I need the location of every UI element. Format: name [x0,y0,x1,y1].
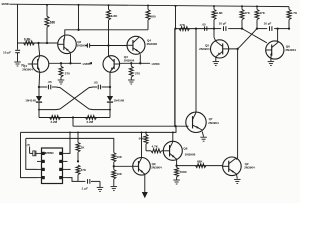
wire to Q9 base [114,165,133,167]
node rail dot x108 [108,4,110,6]
wire left drop x25.8 [26,138,37,169]
wire Q1 collector riser [39,43,40,56]
wire Q10 collector join [236,158,238,159]
svg-text:2N3906: 2N3906 [147,42,158,46]
wire Q6 collector [277,29,279,42]
resistor 6.8K stage1 [24,41,35,45]
wire junction down to line A [72,118,74,127]
transistor Q9 2N3904 [133,158,151,176]
wire Q10 emitter [235,174,238,179]
ground Q7 [200,136,207,138]
node dot 141.5,132.4 [141,131,143,133]
node dot 176.6,165.6 [175,164,177,166]
node rail dot x175.5 [175,5,177,7]
node dot 61,63.3 [60,62,62,64]
svg-text:.05: .05 [94,81,99,85]
transistor Q7 2N3904 [186,112,206,132]
wire rail tap x78.5 [78,5,80,30]
capacitor C8 .1uF [78,180,85,182]
node dot 70.5,63.3 [69,62,71,64]
transistor Q10 2N3904 [223,157,242,176]
svg-text:(7): (7) [27,143,30,147]
node dot 110,109.6 [109,109,111,111]
svg-text:+: + [19,48,21,52]
node dot 78.5,29.8 [77,29,79,31]
svg-text:270: 270 [135,71,140,75]
wire line B [21,127,177,133]
capacitor C3 .05 left cross [39,86,47,88]
transistor Q6 2N3904 [266,41,284,59]
transistor Q8 2N3906 [163,141,182,160]
node dot 146,132.4 [145,131,147,133]
svg-text:○2VDC: ○2VDC [82,62,92,66]
wire cross diag to Q6 base [242,29,267,43]
resistor 2.2M right [86,116,97,120]
marker near Q3 base [88,62,92,65]
ground divider [111,186,118,188]
ground below 270 stage1 [58,79,65,81]
node rail dot x257 [256,5,258,7]
wire Q8 emitter riser [172,132,174,141]
svg-text:1K: 1K [81,146,86,150]
capacitor C6 10uF [214,28,221,30]
wire cross diagonal B [39,87,93,110]
wire Q6 emitter [270,58,272,61]
resistor 680 stage1 vertical [46,27,48,43]
node dot 39,109.6 [38,109,40,111]
svg-text:2.2M: 2.2M [51,120,58,124]
wire top +12V rail [10,4,290,6]
node dot 78,132.4 [77,131,79,133]
node dot 173,132.4 [172,131,174,133]
resistor 270 stage2 [130,63,132,66]
svg-text:47K: 47K [180,23,186,27]
wire rail drop x175.5 [175,6,177,29]
svg-text:6.8K: 6.8K [111,14,118,18]
wire Q3 collector riser [108,46,110,56]
svg-text:68K: 68K [197,159,203,163]
wire Q7 collector drop [195,29,197,113]
resistor 47K mv-left [241,6,243,9]
node dot 78,161.4 [77,160,79,162]
svg-text:2N3904: 2N3904 [244,166,255,170]
svg-text:10 µF: 10 µF [3,50,11,54]
svg-text:2.2M: 2.2M [87,120,94,124]
svg-text:500K: 500K [180,170,188,174]
wire stage2 output line [120,62,150,64]
svg-text:2N3904: 2N3904 [285,48,296,52]
capacitor C5 .05 [204,26,206,30]
svg-text:1N4148: 1N4148 [114,98,125,102]
wire timing bottom line [39,117,110,119]
resistor 68K [196,164,207,168]
wire Q3 emitter down [109,72,111,87]
ground below C1 [14,61,21,63]
node dot 237.6,48.9 [236,48,238,50]
wire stage1 emitter-output line [49,62,81,64]
node rail dot x47 [46,4,48,6]
wire Q2 collector corner [65,30,148,36]
node rail dot x78.5 [78,4,80,6]
node dot 39,87 [38,86,40,88]
resistor 4.7K [146,150,151,152]
resistor 10K lower [113,166,115,169]
wire stage2 base line [90,45,128,47]
wire 47K line y28.6 [176,28,215,30]
node dot 131.3 [130,62,132,64]
resistor 680 stage2 vertical [147,5,149,9]
wire Q8 collector down [176,159,178,166]
svg-text:10 µF: 10 µF [219,21,227,25]
svg-text:12VDC: 12VDC [1,2,9,6]
resistor 6.8K stage2 vertical [108,5,110,10]
wire Q5 collector [213,29,215,38]
wire Q2 emitter [70,54,72,64]
ground Q10 [234,178,241,180]
wire left drop x20.5 [21,132,38,177]
resistor 50K [145,132,147,134]
svg-text:270: 270 [65,71,70,75]
capacitor C1 10uF [15,49,20,51]
wire Q9 collector riser [141,132,143,157]
resistor 1K [77,132,79,142]
resistor 4.7K far right [288,7,290,10]
node rail dot x148 [147,5,149,7]
svg-text:4.7K: 4.7K [152,145,159,149]
wire Q1 emitter down [38,72,41,87]
diode D1 1N4148 [38,87,40,96]
resistor 10K upper [112,153,116,162]
svg-text:10K: 10K [116,172,122,176]
node junction 47,43 [46,42,48,44]
svg-text:2N3906: 2N3906 [185,152,196,156]
capacitor C7 10uF [257,28,267,30]
wire pin7 stub [68,168,71,170]
svg-text:2N3904: 2N3904 [199,47,210,51]
wire line C [26,138,114,152]
svg-text:10 µF: 10 µF [264,21,272,25]
svg-text:1N4148: 1N4148 [25,98,36,102]
node dot 289,28.6 [288,27,290,29]
resistor 2.2M left [50,116,61,120]
node dot 214,28.6 [213,27,215,29]
node dot 110,87 [109,86,111,88]
diode D2 1N4148 [109,87,111,96]
wire cross diag to Q5 base [229,29,257,49]
wire long vertical x237.6 [237,49,239,158]
wire pin8 corner [68,178,79,182]
svg-text:2N3904: 2N3904 [151,166,162,170]
node dot 175.5,126.2 [174,125,176,127]
svg-text:Q8: Q8 [183,146,187,150]
svg-text:680: 680 [50,20,56,24]
node dot 277.6,28.6 [276,27,278,29]
svg-text:47K: 47K [259,11,265,15]
node rail dot x214 [213,5,215,7]
transistor Q3 2N3904 [103,56,120,73]
node dot 242,28.6 [241,27,243,29]
wire stage1 base line [18,42,58,44]
ground below 270 stage2 [128,79,135,81]
node dot 113.8,166.3 [113,165,115,167]
resistor 270 stage1 [60,63,62,66]
node junction 108.5,45.5 [107,44,109,46]
wire left drop to C1 [17,4,19,49]
wire Q5 emitter [215,57,217,62]
svg-text:4.7K: 4.7K [291,11,298,15]
resistor 47K mv-right [256,6,258,9]
wire Q9 emitter arrow [144,174,146,192]
capacitor C4 .05 right cross [102,86,110,88]
node dot 175.5,28.6 [174,27,176,29]
svg-text:47K: 47K [81,168,87,172]
wire Q1 base stub [28,63,32,65]
resistor 6.8K right [213,6,215,9]
node junction 38.5,43 [37,42,39,44]
node dot 70,132.4 [69,131,71,133]
ground 500K [173,179,180,181]
IC U1 NE555N [42,148,63,184]
ground Q6 [268,61,275,63]
svg-text:50K: 50K [139,137,145,141]
svg-text:680: 680 [150,15,155,19]
transistor Q2 2N3906 [58,35,77,54]
ground C8 [97,186,104,188]
transistor Q1 2N3904 [32,56,49,73]
svg-text:NE555N: NE555N [44,151,54,155]
node dot 73,117.5 [72,116,74,118]
node dot 257,28.6 [256,27,258,29]
wire cross diagonal A [56,87,110,110]
svg-text:2N3904: 2N3904 [22,67,33,71]
resistor 47K top middle [179,27,190,31]
svg-text:.05: .05 [202,23,207,27]
wire C8 to ground [99,181,101,187]
node rail dot x242 [241,5,243,7]
capacitor C2 coupling stage2 [86,43,88,47]
ground Q5 [213,61,220,63]
wire line A to Q7 base [73,125,189,127]
svg-text:6.8K: 6.8K [24,38,31,42]
wire Q7 emitter [202,132,203,137]
node dot 140.3 [139,62,141,64]
svg-text:10K: 10K [116,155,122,159]
svg-text:○2VDC: ○2VDC [151,62,161,66]
wire 68K line [177,165,223,167]
svg-text:47K: 47K [244,11,250,15]
svg-text:6.8K: 6.8K [216,11,223,15]
svg-text:2N3904: 2N3904 [124,59,135,63]
svg-text:.1 µF: .1 µF [81,186,88,190]
wire Q4 emitter [139,54,141,63]
resistor 47K ic [76,165,80,175]
wire pin5 riser [68,132,71,153]
svg-text:2N3904: 2N3904 [208,121,219,125]
transistor Q5 2N3904 [211,40,229,58]
svg-text:.05: .05 [48,80,53,84]
resistor 500K [176,166,178,168]
crystal XTAL1 [36,152,37,154]
transistor Q4 2N3906 [127,36,145,54]
node dot 196,28.6 [195,27,197,29]
